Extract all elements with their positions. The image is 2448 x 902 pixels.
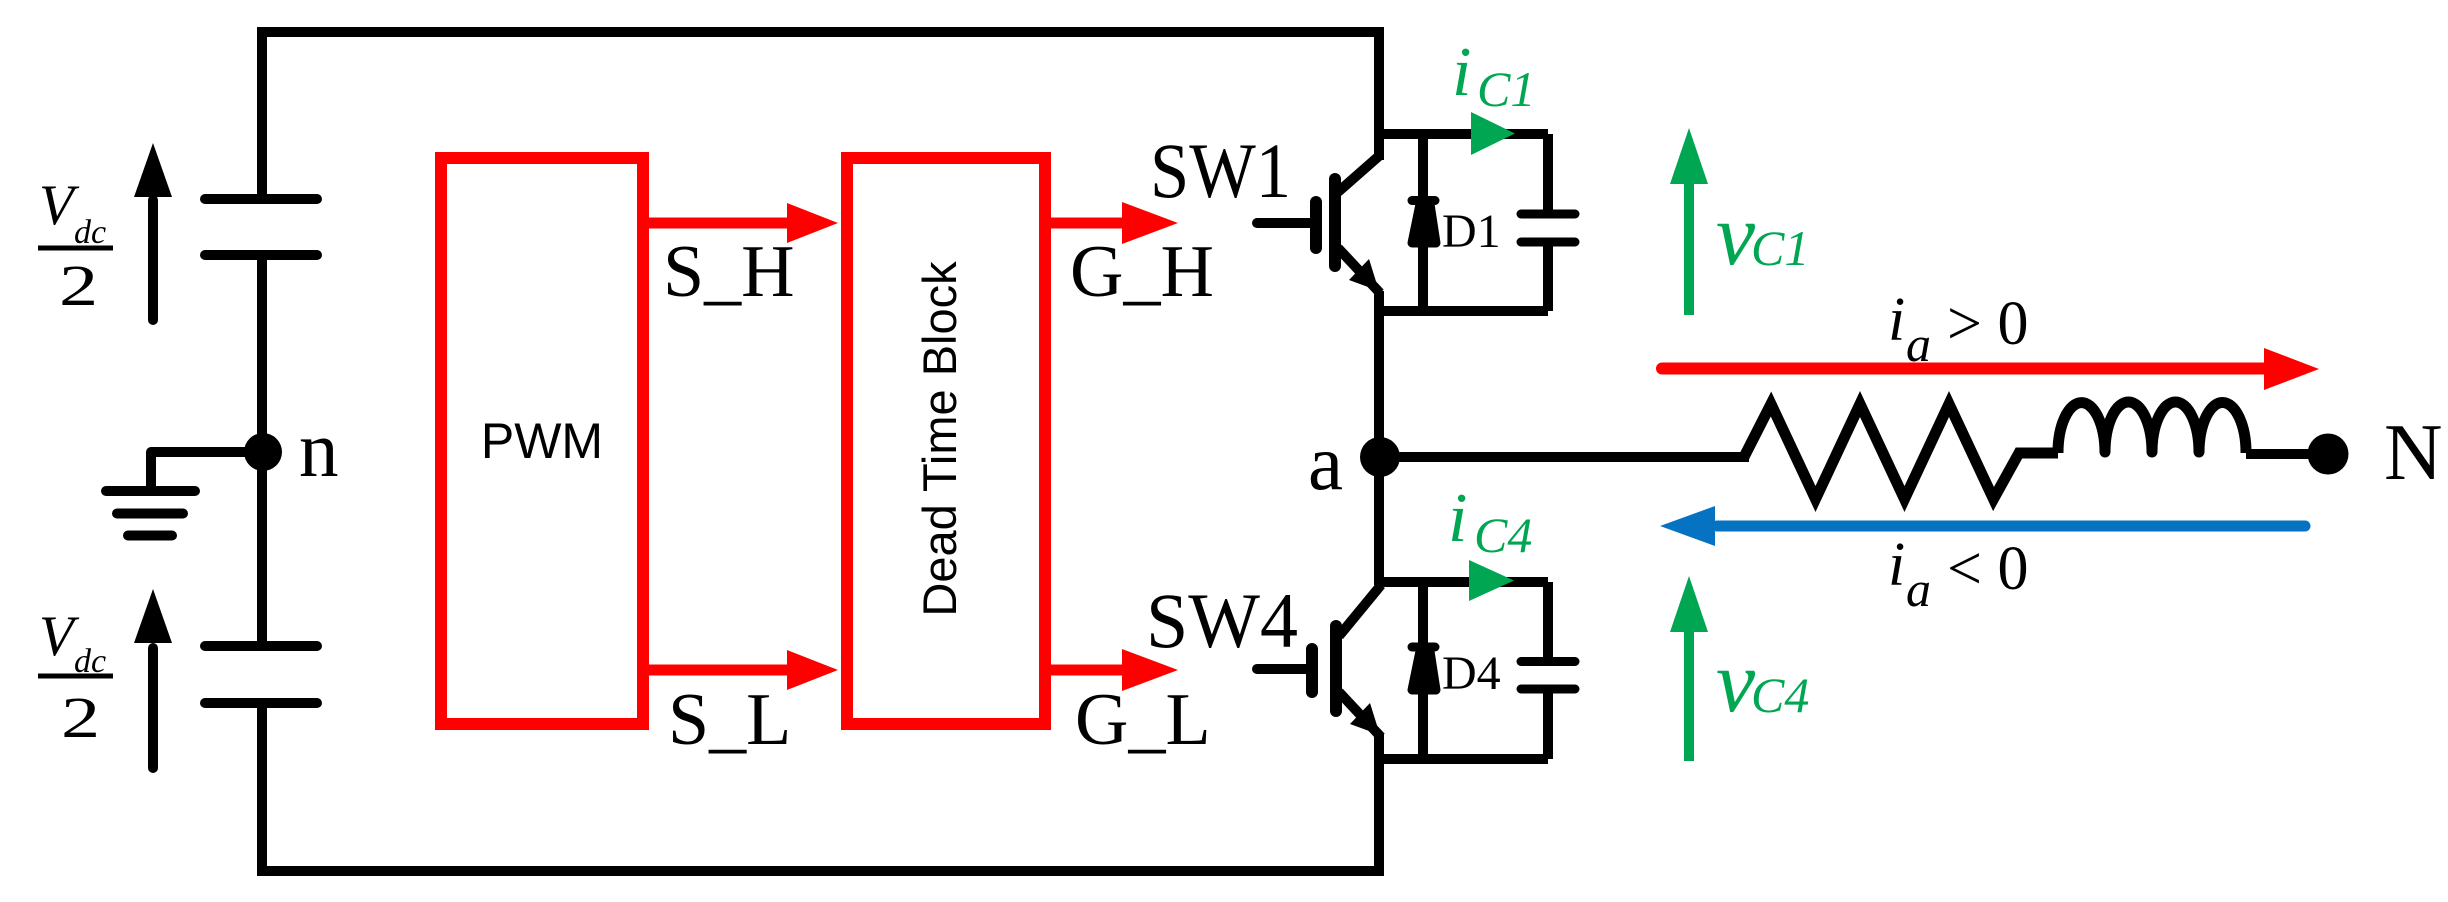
svg-text:i: i: [1888, 286, 1905, 354]
svg-text:S_L: S_L: [668, 679, 791, 761]
svg-text:D4: D4: [1442, 647, 1501, 700]
svg-text:C1: C1: [1751, 220, 1809, 276]
wire G_L red arrow: [1047, 649, 1178, 691]
svg-text:SW4: SW4: [1146, 577, 1298, 664]
wire mid left: between capacitors through node n: [257, 259, 267, 642]
arrow Vdc/2 bottom (voltage reference arrow): [134, 589, 172, 768]
wire S_L red arrow: [645, 650, 838, 690]
wire inductor to node N: [2246, 449, 2310, 459]
capacitor C1 (snubber): [1521, 134, 1575, 311]
arrow vC4 (green voltage arrow): [1670, 576, 1708, 761]
ground symbol bars: [106, 491, 195, 536]
block PWM: [441, 158, 643, 724]
svg-text:a: a: [1906, 316, 1931, 372]
transistor SW1 (IGBT): [1257, 156, 1380, 293]
svg-text:dc: dc: [74, 214, 106, 251]
label ia>0: [1888, 286, 2028, 372]
label Vdc/2 bottom: [38, 605, 113, 750]
svg-text:SW1: SW1: [1150, 127, 1291, 214]
diode D1: [1412, 134, 1436, 311]
svg-text:N: N: [2384, 407, 2443, 497]
arrow ia<0 (blue current direction): [1660, 506, 2305, 546]
arrow iC4 (green current arrow): [1469, 560, 1514, 601]
svg-text:C4: C4: [1474, 507, 1532, 563]
node n: [244, 433, 282, 471]
svg-text:2: 2: [59, 254, 98, 318]
label vC4: [1716, 634, 1809, 731]
capacitor C4 (snubber): [1521, 582, 1575, 759]
wire top bus: left vertical + top edge + right vertical of DC-link loop: [262, 32, 1379, 196]
arrow iC1 (green current arrow): [1471, 112, 1515, 155]
wire node a to resistor: [1395, 452, 1749, 462]
wire D4/C4 branch top: [1379, 577, 1548, 587]
svg-text:PWM: PWM: [481, 413, 603, 469]
wire ground branch from node n: [151, 452, 262, 487]
svg-text:v: v: [1716, 634, 1756, 731]
capacitor Cdc-top plates: [205, 199, 317, 255]
arrow ia>0 (red current direction): [1662, 348, 2319, 390]
svg-text:C1: C1: [1477, 61, 1535, 117]
inductor L (load): [2058, 402, 2246, 453]
diode D4: [1412, 582, 1436, 759]
capacitor Cdc-bottom plates: [205, 646, 317, 703]
svg-text:S_H: S_H: [663, 231, 795, 313]
svg-text:a: a: [1906, 561, 1931, 617]
wire D1/C1 branch bottom: [1379, 306, 1548, 316]
svg-text:v: v: [1716, 187, 1756, 284]
wire phase leg middle (SW1 emitter to SW4 collector through node a): [1374, 291, 1384, 585]
svg-text:a: a: [1308, 420, 1343, 507]
wire D1/C1 branch top: [1379, 129, 1548, 139]
wire D4/C4 branch bottom: [1379, 754, 1548, 764]
arrow vC1 (green voltage arrow): [1670, 128, 1708, 315]
svg-text:i: i: [1448, 480, 1467, 557]
svg-text:G_L: G_L: [1075, 679, 1211, 761]
svg-text:Dead Time Block: Dead Time Block: [913, 261, 966, 617]
svg-text:G_H: G_H: [1070, 231, 1214, 313]
svg-text:D1: D1: [1442, 205, 1501, 258]
node N: [2308, 434, 2349, 475]
svg-text:C4: C4: [1751, 667, 1809, 723]
svg-text:2: 2: [61, 686, 100, 750]
label vC1: [1716, 187, 1809, 284]
arrow Vdc/2 top (voltage reference arrow): [134, 143, 172, 320]
resistor R (load): [1744, 404, 2058, 499]
label Vdc/2 top: [38, 174, 113, 318]
transistor SW4 (IGBT): [1257, 585, 1381, 737]
transistor SW4 emitter arrowhead: [1350, 703, 1380, 735]
label iC1: [1452, 34, 1535, 117]
svg-text:i: i: [1452, 34, 1471, 111]
svg-text:< 0: < 0: [1947, 535, 2028, 603]
block Dead Time Block: [847, 158, 1045, 724]
label ia<0: [1888, 531, 2028, 617]
node a: [1360, 437, 1400, 477]
wire SW4 emitter to bottom bus: [1374, 735, 1384, 871]
label iC4: [1448, 480, 1532, 563]
wire G_H red arrow: [1047, 202, 1178, 244]
transistor SW1 emitter arrowhead: [1349, 259, 1379, 291]
wire bottom left + bottom edge + right bottom vertical: [262, 707, 1379, 871]
svg-text:i: i: [1888, 531, 1905, 599]
svg-text:n: n: [299, 407, 339, 494]
wire S_H red arrow: [645, 203, 838, 243]
svg-text:> 0: > 0: [1947, 290, 2028, 358]
